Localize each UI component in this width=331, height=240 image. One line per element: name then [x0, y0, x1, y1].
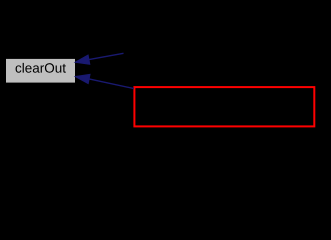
label text "clearOut" (as outlines) [16, 63, 66, 73]
wire: edge line from red caller node [89, 79, 134, 89]
arrowhead into clearOut (top) [75, 55, 90, 64]
edge from upper caller to clearOut [75, 53, 123, 64]
node clearOut (current function, grey box) [6, 59, 75, 83]
caller-graph canvas [0, 0, 331, 133]
grey node box [6, 59, 75, 83]
wire: edge line from hidden upper caller node [89, 53, 124, 59]
arrowhead into clearOut (bottom) [75, 74, 90, 83]
node caller (red, truncated) [134, 87, 314, 126]
edge from red caller to clearOut [75, 74, 134, 88]
